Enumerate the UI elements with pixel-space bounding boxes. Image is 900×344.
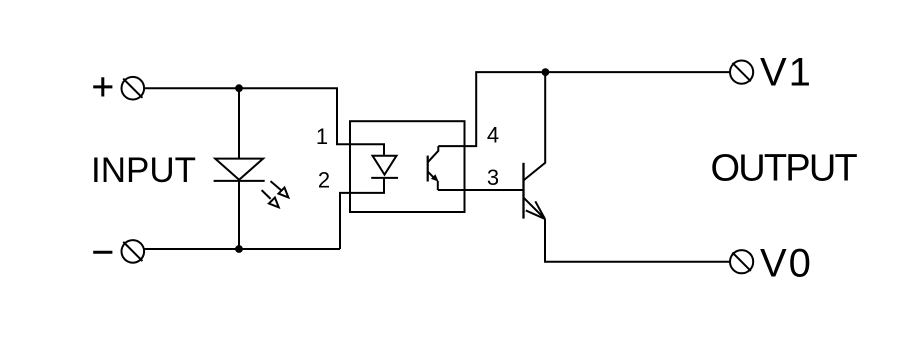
wire LED cathode bbox=[238, 181, 240, 249]
terminal screw - bbox=[122, 240, 145, 263]
LED light arrow lower bbox=[262, 190, 279, 207]
transistor Q1 collector bbox=[524, 72, 546, 180]
LED light arrow upper bbox=[271, 181, 289, 197]
svg-text:2: 2 bbox=[318, 168, 330, 193]
wire bottom input rail bbox=[144, 248, 340, 250]
opto phototransistor base bar bbox=[427, 156, 429, 182]
svg-text:V1: V1 bbox=[760, 51, 813, 95]
junction dot input top bbox=[235, 84, 243, 92]
LED D1 bbox=[214, 159, 265, 181]
wire top input rail to pin1 bbox=[144, 88, 384, 156]
terminal screw V0 bbox=[730, 250, 753, 273]
svg-text:4: 4 bbox=[487, 123, 499, 148]
optocoupler box U1 bbox=[350, 121, 465, 212]
svg-text:OUTPUT: OUTPUT bbox=[711, 148, 858, 190]
svg-text:1: 1 bbox=[316, 124, 328, 149]
svg-text:3: 3 bbox=[487, 165, 499, 190]
plus sign bbox=[93, 77, 112, 96]
transistor Q1 base bar bbox=[522, 163, 524, 219]
terminal screw V1 bbox=[730, 61, 753, 84]
wire emitter to V0 rail bbox=[545, 219, 730, 262]
wire pin2 bbox=[340, 178, 384, 249]
junction dot collector rail bbox=[542, 68, 550, 76]
opto phototransistor emitter bbox=[428, 172, 439, 190]
wire pin4 to V1 rail bbox=[438, 72, 730, 146]
wire LED anode bbox=[238, 88, 240, 158]
junction dot input bottom bbox=[235, 245, 243, 253]
svg-text:V0: V0 bbox=[760, 242, 813, 286]
opto LED bbox=[371, 156, 398, 178]
minus sign bbox=[93, 251, 112, 254]
terminal screw + bbox=[122, 77, 145, 100]
wire pin3 to base bbox=[438, 189, 524, 191]
opto phototransistor collector bbox=[428, 146, 439, 162]
transistor Q1 emitter bbox=[524, 198, 546, 219]
svg-text:INPUT: INPUT bbox=[91, 151, 196, 190]
